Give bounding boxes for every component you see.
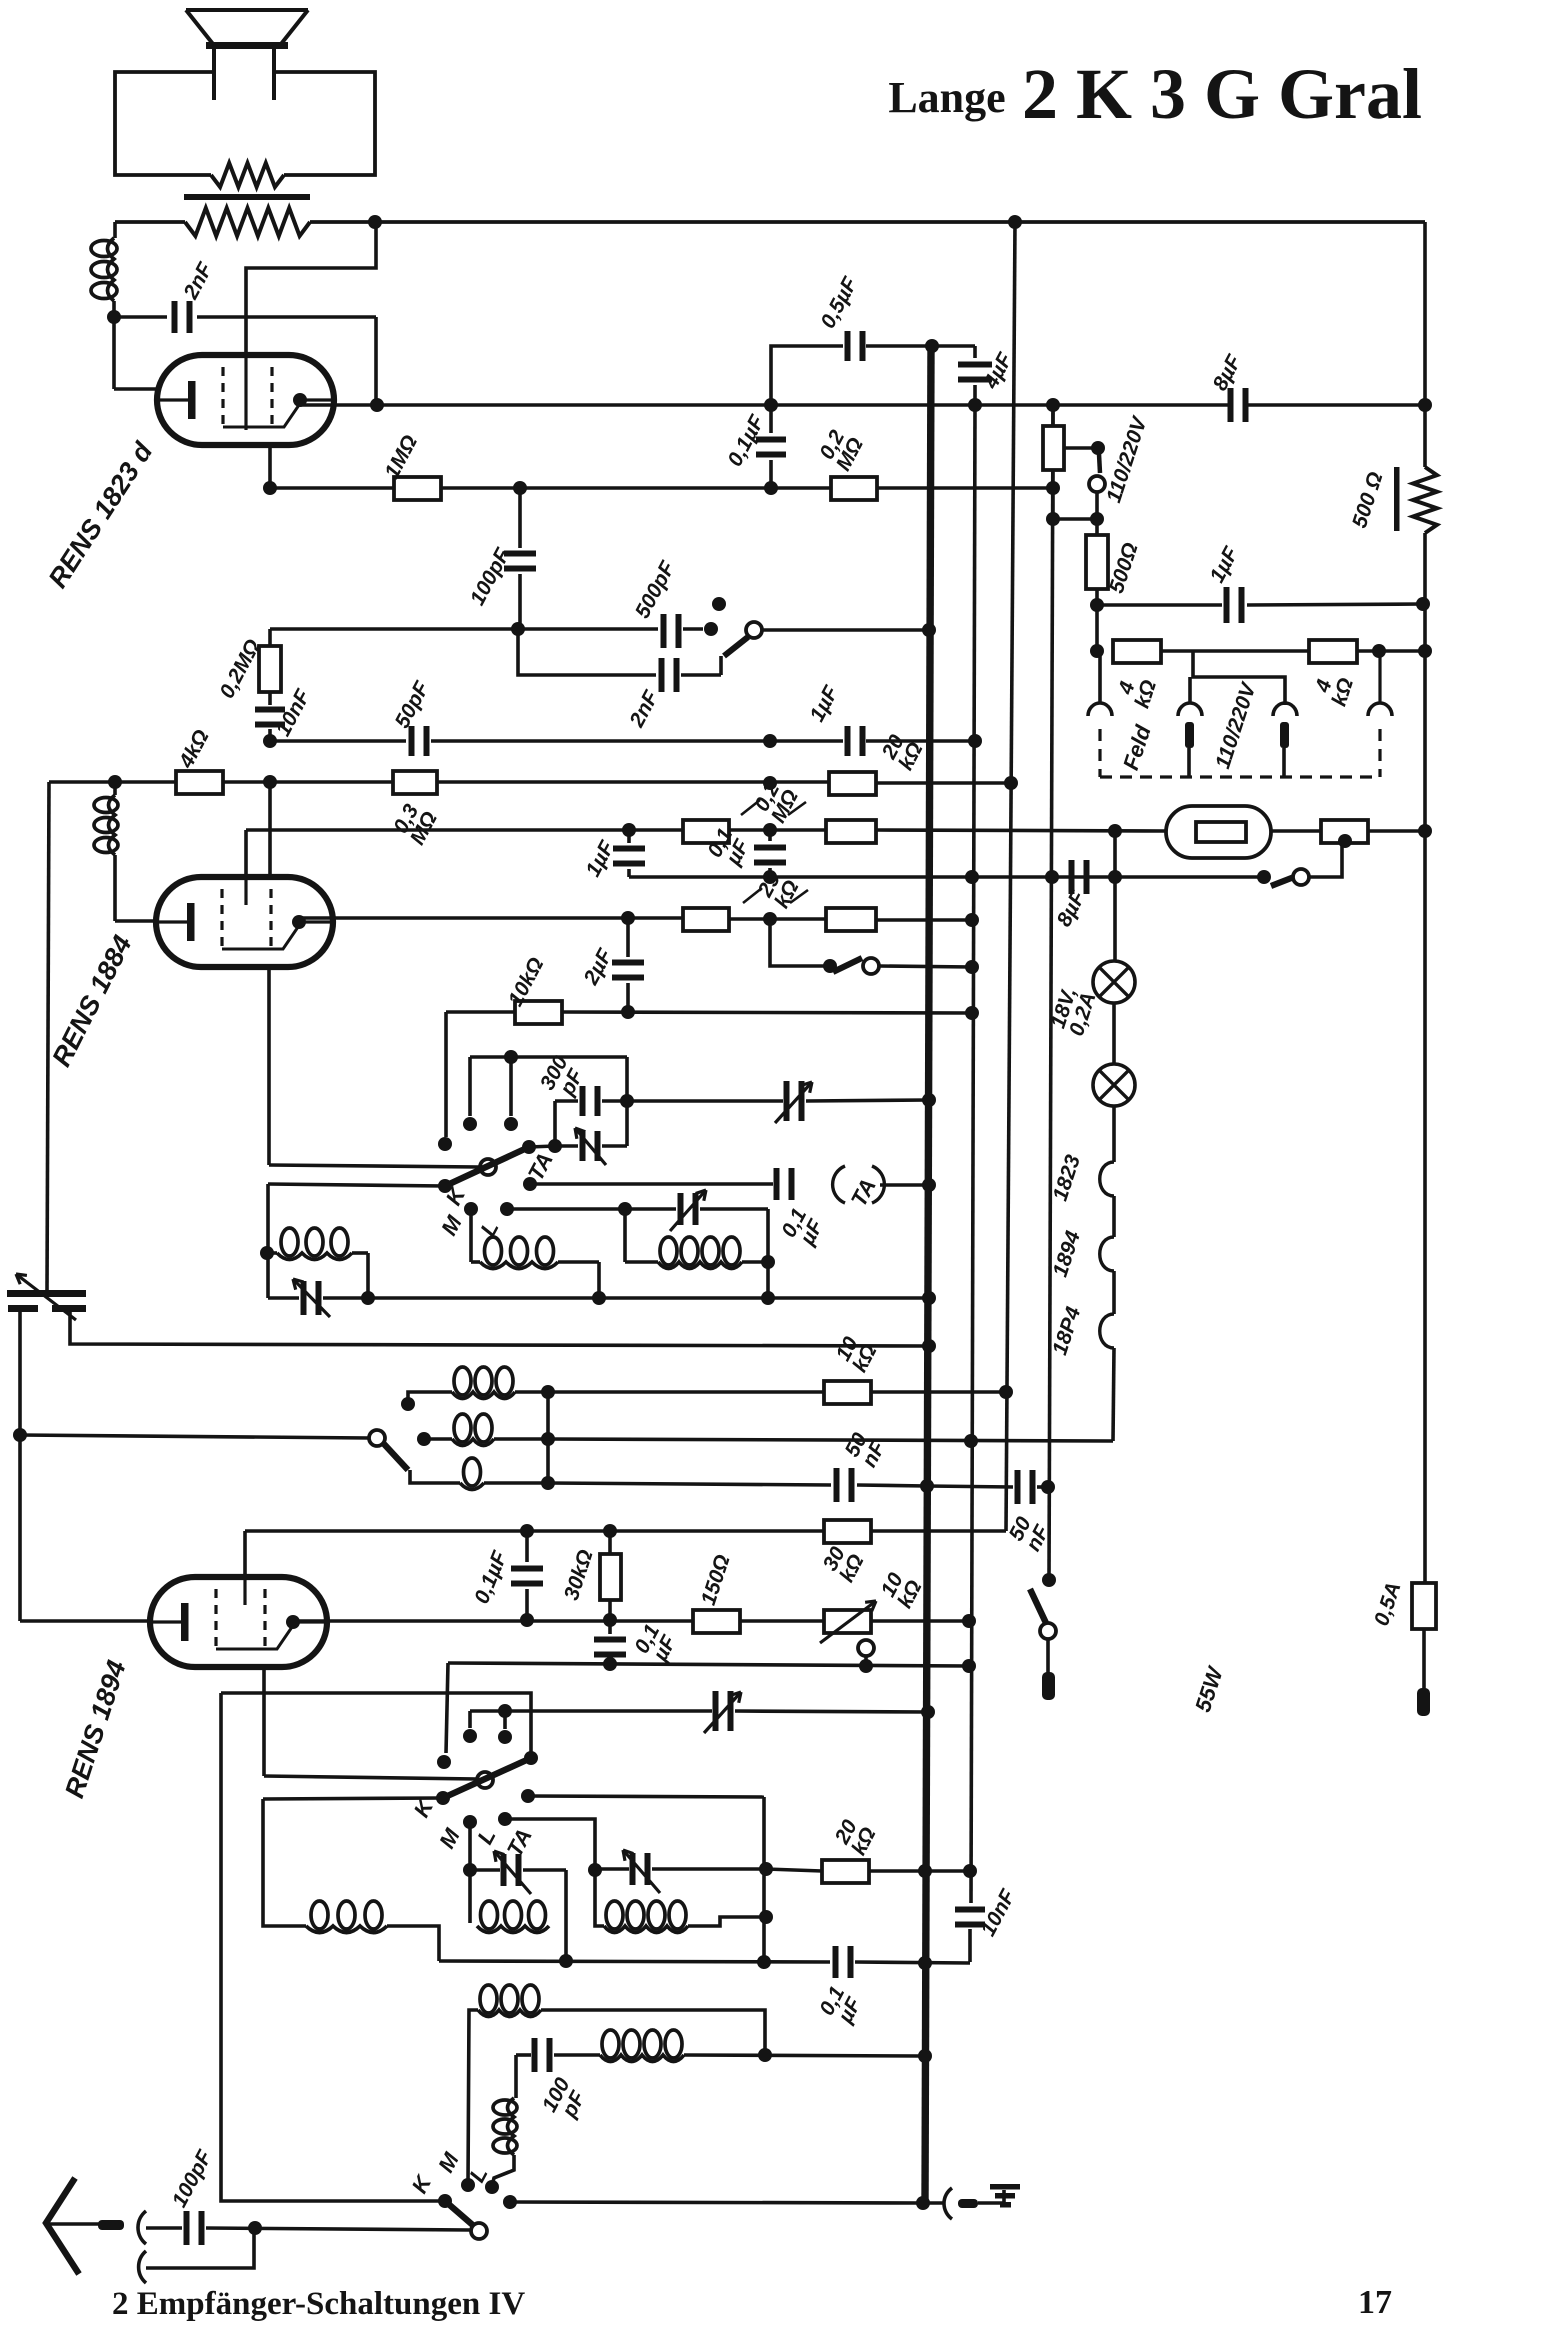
capacitor 2nF tone: [518, 629, 656, 675]
coil M section3: [477, 1926, 549, 1933]
contact stubs box: [470, 1055, 627, 1059]
voltage selector switch 110/220V: [1099, 454, 1100, 473]
contact TA section3: [521, 1789, 535, 1803]
osc contact 1: [401, 1397, 415, 1411]
osc coil 3: [410, 1470, 460, 1483]
wire vertical rail x975: [971, 405, 975, 1903]
resistor 0,2M grid leak: [268, 629, 272, 646]
osc contact 2: [417, 1432, 431, 1446]
wire lever feed y1185: [268, 1184, 445, 1186]
capacitor 2uF: [626, 918, 630, 957]
wire 1884 tube bottom drop: [267, 967, 271, 1165]
capacitor 4uF: [973, 346, 977, 358]
svg-text:2 Empfänger-Schaltungen IV: 2 Empfänger-Schaltungen IV: [112, 2286, 525, 2322]
plug pins feld: [1185, 722, 1194, 748]
wire y1711 to bus: [505, 1709, 712, 1713]
wire feld links: [1161, 649, 1309, 653]
wire 1884 screen drop: [268, 782, 272, 878]
coil G vertical: [514, 2055, 518, 2098]
capacitor 1uF mains: [1097, 603, 1222, 607]
capacitor 100pF osc: [516, 2053, 531, 2057]
coil M section2: [469, 1209, 473, 1262]
capacitor 0,1uF divider: [768, 830, 772, 841]
coil F section3: [600, 2055, 684, 2062]
resistor 0,3M: [393, 771, 437, 794]
wire right rail: [1423, 222, 1427, 467]
wire L to trimmer2 section3: [505, 1819, 595, 1915]
resistor 30k grid stopper: [824, 1520, 871, 1543]
contact M section3: [463, 1815, 477, 1829]
loudspeaker horn: [186, 8, 308, 12]
resistor 4k feld left: [1090, 644, 1104, 658]
capacitor 300pF: [625, 1057, 629, 1101]
tuning variable capacitor: [7, 1290, 86, 1297]
wire anode row 1894: [293, 1619, 693, 1623]
wire y1392 to 10k: [548, 1390, 824, 1394]
osc coil 1: [452, 1392, 515, 1399]
wire mains terminal lead: [1046, 1639, 1050, 1674]
grid coil RENS1884: [113, 782, 117, 795]
wire grid rail y830: [244, 830, 248, 877]
wire 300pF row to bus: [627, 1099, 783, 1103]
wire ground row y2202: [503, 2195, 517, 2209]
resistor 25k b: [826, 908, 876, 931]
dial lamp 1: [1093, 961, 1135, 1003]
coil A2 section3: [263, 1799, 306, 1926]
resistor 10k osc: [824, 1381, 871, 1404]
svg-text:17: 17: [1358, 2284, 1392, 2321]
trimmer capacitor 1 section3: [468, 1822, 472, 1923]
wire cathode 1884: [115, 919, 156, 923]
wire contact drop x447: [446, 1663, 448, 1753]
switch short 25k: [770, 919, 830, 966]
heater RENS1823: [1100, 1162, 1114, 1196]
tube RENS 1823 d: [157, 355, 334, 445]
capacitor 50nF a: [834, 1468, 840, 1502]
wire y2201 from x221: [221, 1693, 445, 2201]
wire heater chain: [1113, 831, 1117, 961]
wire row y1012: [446, 1010, 515, 1014]
capacitor 8uF in anode rail: [1228, 388, 1234, 422]
variable capacitor padder: [784, 1081, 790, 1121]
switch K osc: [445, 2201, 475, 2227]
wire vertical rail x1010: [1006, 222, 1015, 1531]
resistor 150 ohm: [693, 1610, 740, 1633]
capacitor 0,1uF section3: [833, 1946, 839, 1978]
wire grid row y488: [270, 486, 394, 490]
capacitor 8uF b: [1069, 860, 1075, 894]
mains terminal right: [1417, 1688, 1430, 1716]
fuse holder oval: [1166, 806, 1271, 858]
resistor 25k a: [683, 908, 729, 931]
wire anode row 1884: [299, 916, 683, 920]
wire 20k row continue: [766, 1869, 822, 1871]
resistor 0,2M (mains bleeder): [831, 477, 877, 500]
capacitor 0,1uF 1894 grid: [525, 1531, 529, 1562]
wire k-feed row y1693: [221, 1693, 531, 1757]
resistor 20k section3: [822, 1860, 869, 1883]
coupling coil left of RENS1823d: [113, 222, 117, 238]
contact M osc: [461, 2178, 475, 2192]
variable capacitor padder section3: [713, 1691, 719, 1731]
fuse 0,5A: [1412, 1583, 1436, 1629]
wiper feed 10k: [858, 1640, 874, 1656]
capacitor 0,1uF 2: [608, 1620, 612, 1634]
resistor 10k variable: [824, 1610, 871, 1633]
pickup jack TA arcs: [833, 1166, 845, 1203]
capacitor 2nF: [114, 315, 167, 319]
wire TA row y1184: [530, 1182, 773, 1186]
osc coil 2: [452, 1439, 494, 1446]
heater RENS1884: [1100, 1237, 1114, 1271]
wire tube bottom drop 1894: [262, 1668, 266, 1776]
contact M section2: [464, 1202, 478, 1216]
tube RENS 1884: [156, 877, 333, 967]
dial lamp 2: [1112, 1003, 1116, 1064]
wire right drop x768: [766, 1209, 770, 1298]
capacitor 50nF b: [1015, 1470, 1021, 1504]
coil antenna section2: [266, 1184, 270, 1298]
svg-text:2 K 3 G Gral: 2 K 3 G Gral: [1022, 54, 1422, 134]
coil L section3: [595, 1915, 604, 1926]
wire heater return y1440: [548, 1439, 1113, 1441]
tone switch: [746, 622, 762, 638]
loudspeaker magnet box: [212, 49, 216, 100]
contact L section2: [500, 1202, 514, 1216]
loudspeaker bar: [206, 42, 288, 49]
trimmer capacitor 2 section3: [595, 1867, 629, 1871]
resistor 500 ohm dropper: [1086, 535, 1108, 589]
voice coil resistor zigzag: [211, 163, 284, 187]
resistor 4k: [176, 771, 223, 794]
coil L section2: [623, 1209, 627, 1262]
resistor barretter: [1321, 820, 1368, 843]
contact stub box section3: [470, 1709, 505, 1713]
contact TA section2: [523, 1177, 537, 1191]
capacitor 1uF (AVC row): [845, 726, 851, 756]
switch K section3: [264, 1776, 477, 1779]
wire grid drop from transformer: [246, 222, 376, 355]
dashed box feld: [1098, 729, 1101, 777]
wire earth jack link: [146, 2228, 254, 2268]
capacitor 100pF antenna: [146, 2226, 182, 2230]
capacitor 10nF in rail x975: [955, 1907, 985, 1913]
tube RENS 1894: [150, 1577, 327, 1667]
resistor 0,2M b: [826, 820, 876, 843]
capacitor 100pF: [518, 488, 522, 548]
resistor 30k vertical: [608, 1531, 612, 1554]
wire AVC row y782: [49, 780, 176, 784]
heater RENS1894: [1100, 1314, 1114, 1348]
wire row y1664: [448, 1663, 969, 1666]
resistor 0,2M a: [683, 820, 729, 843]
wire 50nF row y1485: [548, 1483, 831, 1485]
resistor 10k: [515, 1001, 562, 1024]
wire osc coil common: [546, 1392, 550, 1483]
wire left drop x48 to tuning cap: [47, 782, 49, 1291]
resistor 1M: [394, 477, 441, 500]
wire top rail B+: [375, 220, 1425, 224]
mains switch lever: [1030, 1589, 1046, 1623]
wire gang rotor rail y1344: [70, 1312, 929, 1346]
wire cathode 1894: [20, 1619, 150, 1623]
node dot above tone switch: [712, 597, 726, 611]
wire 50pF row y741: [270, 739, 406, 743]
switch on y877 row: [1271, 877, 1294, 886]
resistor 500 ohm field zigzag: [1394, 467, 1400, 531]
wire vertical rail x1052 mains: [1049, 405, 1053, 1580]
antenna symbol: [46, 2178, 79, 2274]
contact L osc: [485, 2180, 499, 2194]
hook contacts feld: [1088, 703, 1112, 716]
switch K section2: [269, 1165, 479, 1167]
capacitor 500pF: [661, 614, 667, 648]
antenna jack arcs: [138, 2211, 146, 2244]
wire L row trimmer y1209: [507, 1207, 676, 1211]
trimmer capacitor under 300pF: [553, 1101, 557, 1146]
capacitor 0,5uF: [771, 346, 843, 405]
contact L section3: [498, 1812, 512, 1826]
capacitor 0,1uF (x771): [769, 405, 773, 433]
capacitor 1uF interstage: [627, 830, 631, 843]
wire anode rail y405: [300, 403, 1229, 407]
wire thick ground bus: [925, 346, 931, 2203]
oscillator coil E section3: [468, 2010, 478, 2184]
resistor 4k feld right: [1309, 640, 1357, 663]
wire grid rail 1894: [243, 1531, 247, 1577]
wire screen drop 1823d: [268, 445, 272, 487]
resistor 20k: [829, 772, 876, 795]
svg-text:Lange: Lange: [888, 73, 1005, 122]
wire TA row section3: [528, 1796, 764, 1797]
trimmer capacitor L: [678, 1193, 684, 1225]
potentiometer mains dropper: [1051, 405, 1055, 426]
trimmer capacitor antenna coil: [268, 1296, 299, 1300]
capacitor 10nF: [268, 692, 272, 705]
wire tone row y629: [270, 627, 658, 631]
wire lever feed y1799: [263, 1798, 443, 1799]
speaker frame box: [115, 72, 214, 175]
wire gang left drop: [18, 1312, 22, 1621]
capacitor 0,1uF TA: [774, 1168, 780, 1200]
wire 2nF to plate node: [374, 317, 378, 405]
osc switch lever: [384, 1444, 408, 1470]
wire contact drop x446: [444, 1010, 448, 1014]
transformer core bar: [184, 194, 310, 200]
wire cathode 1823d: [114, 387, 157, 391]
transformer primary winding zigzag: [115, 220, 185, 224]
capacitor 50pF: [409, 726, 415, 756]
wire row y1961: [439, 1961, 830, 1962]
wire row y877: [629, 875, 1264, 879]
wire osc pivot row y1436: [20, 1435, 369, 1438]
ground plug and symbol: [944, 2188, 952, 2219]
